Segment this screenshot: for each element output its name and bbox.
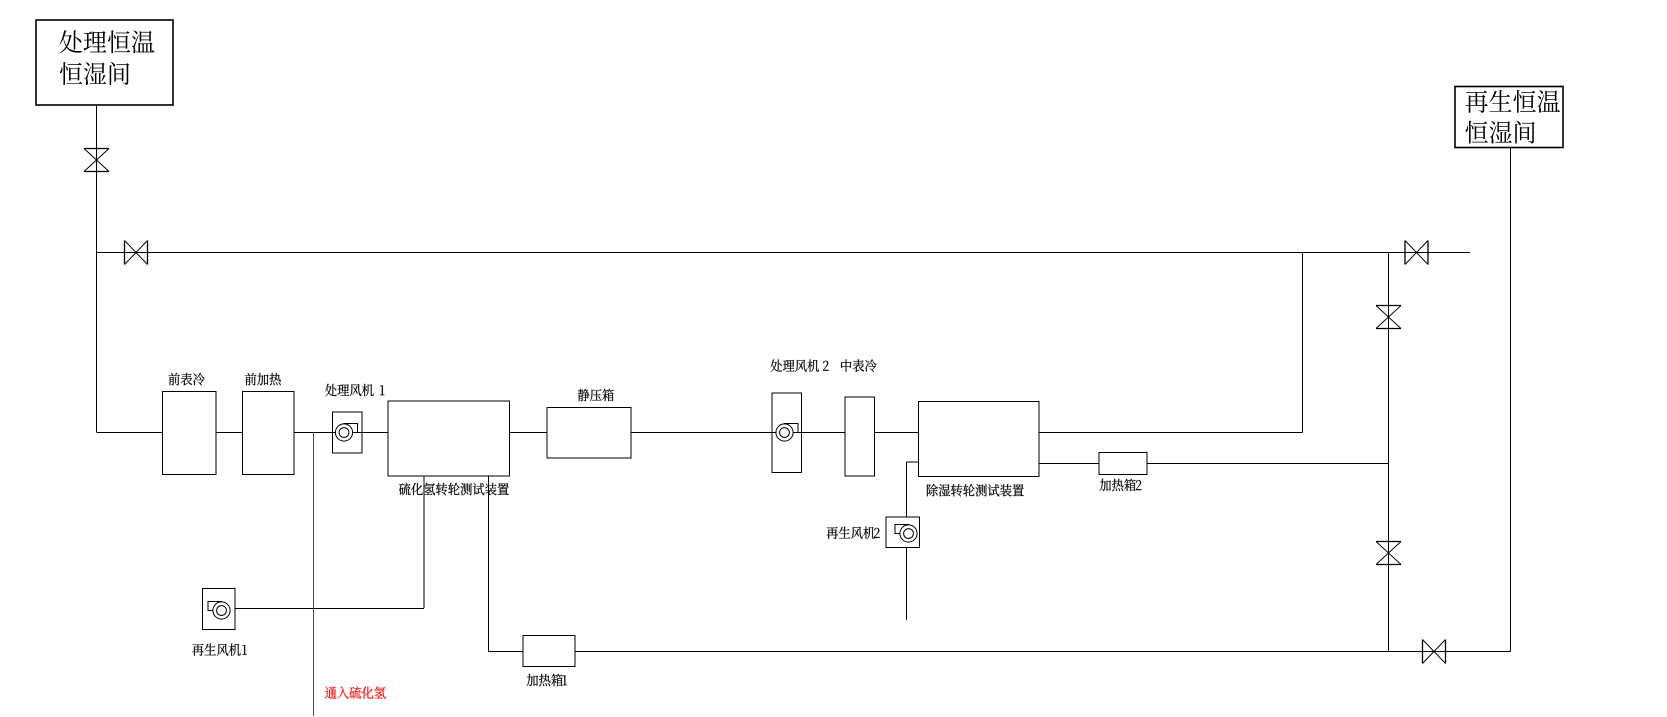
wire: 除湿 outlet to 加热箱2 duct (1039, 463, 1389, 465)
wire: 再生风机2 drop line upper (906, 462, 908, 517)
box 除湿转轮测试装置 (919, 402, 1040, 497)
valve V6 on bottom duct (1423, 640, 1446, 664)
box 前加热 (243, 373, 295, 475)
fan 再生风机1 (192, 589, 247, 656)
wire: from 再生恒温恒湿间 down right side (1510, 148, 1512, 652)
wire: 硫化氢装置 right bottom drop (488, 476, 490, 652)
box 加热箱2 (1099, 453, 1147, 492)
wire: stub from 除湿 box to 再生风机2 drop (907, 461, 919, 463)
box 前表冷 (163, 373, 217, 475)
wire: 再生风机2 drop line lower (906, 548, 908, 621)
wire: red H2S injection line (313, 432, 315, 716)
wire: regeneration riser (1388, 253, 1390, 652)
wire: 再生风机1 outlet duct (235, 608, 424, 610)
wire: main process duct (97, 432, 1303, 434)
valve V3 on top bypass right (1405, 241, 1428, 265)
wire: from 处理恒温恒湿间 down to main duct (96, 105, 98, 432)
valve V5 on regeneration riser lower (1376, 542, 1401, 565)
fan 处理风机1 (325, 384, 384, 453)
fan 再生风机2 (827, 517, 920, 548)
wire: 硫化氢装置 left bottom drop (423, 476, 425, 608)
wire: top bypass duct (97, 252, 1471, 254)
box 处理恒温恒湿间 (36, 20, 173, 105)
wire: bottom regeneration duct (489, 651, 1511, 653)
box 硫化氢转轮测试装置 (388, 401, 510, 495)
wire: riser from main duct up to top bypass (1302, 253, 1304, 433)
fan 处理风机2 (771, 359, 829, 472)
box 中表冷 (841, 359, 876, 476)
valve V1 on left drop line (84, 149, 109, 172)
label 通入硫化氢 (red) (325, 686, 386, 699)
valve V4 on regeneration riser upper (1376, 306, 1401, 329)
valve V2 on top bypass left (125, 241, 148, 265)
box 再生恒温恒湿间 (1455, 87, 1563, 148)
box 静压箱 (547, 389, 631, 458)
box 加热箱1 (523, 636, 575, 687)
